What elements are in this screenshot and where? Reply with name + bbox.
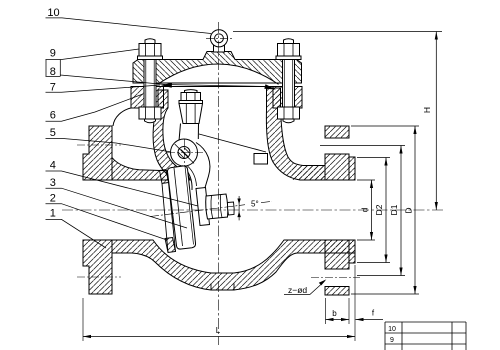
dimension D flange diameter xyxy=(351,126,419,294)
dimension L face to face length xyxy=(83,265,355,341)
body right pipe wall top xyxy=(290,166,325,180)
svg-text:D: D xyxy=(404,207,414,213)
stop lug xyxy=(254,154,268,165)
body left flange bottom xyxy=(83,240,112,294)
body flange bottoms xyxy=(131,107,302,109)
leader item 2 seat ring xyxy=(46,204,168,240)
svg-text:7: 7 xyxy=(50,82,56,94)
right flange raised face top xyxy=(349,157,355,180)
right flange raised face bottom xyxy=(349,240,355,263)
svg-text:10: 10 xyxy=(47,7,59,19)
body left pipe wall top xyxy=(112,158,174,181)
dimension b flange thickness xyxy=(326,298,350,324)
seat ring xyxy=(160,170,169,184)
dimension d bore diameter xyxy=(357,180,375,240)
hinge bracket bolt xyxy=(179,90,203,124)
leader item 3 disc xyxy=(46,188,188,228)
body left top flange xyxy=(131,87,164,109)
left flange hole centerlines xyxy=(77,145,121,277)
leader item 4 disc nut xyxy=(46,171,199,206)
pin centerline xyxy=(167,152,203,154)
svg-text:5: 5 xyxy=(50,127,56,139)
svg-text:d: d xyxy=(360,207,370,212)
centerline horizontal xyxy=(62,209,443,211)
leader item 9 hex nut xyxy=(46,49,140,60)
leader item 5 hinge pin xyxy=(46,138,171,151)
svg-text:9: 9 xyxy=(390,337,394,344)
body bottom sump wall xyxy=(112,240,355,290)
disc axis tilted centerline xyxy=(150,201,272,216)
hinge boss to pin xyxy=(179,124,199,142)
leader item 7 gasket, with arrow xyxy=(46,85,161,92)
svg-text:L: L xyxy=(216,326,221,335)
arm stop tail xyxy=(199,134,266,152)
leader item 8 bonnet, with box and arrow to joint xyxy=(46,60,269,87)
hinge pin xyxy=(171,139,198,166)
svg-text:5°: 5° xyxy=(251,200,259,209)
disc washer xyxy=(196,188,210,226)
body neck fillet left xyxy=(113,108,131,126)
label 5 degree disc angle, with arrows xyxy=(238,196,240,220)
centerline vertical xyxy=(218,22,220,345)
left bolt assembly xyxy=(138,39,163,123)
nut stub xyxy=(227,202,234,215)
eyebolt ring 10 xyxy=(214,45,225,53)
body left flange top xyxy=(83,126,112,180)
disc nut xyxy=(206,194,228,219)
body right neck wall xyxy=(266,88,325,180)
svg-text:8: 8 xyxy=(50,66,56,78)
leader item 10 eyebolt xyxy=(46,18,212,34)
right bolt assembly xyxy=(276,39,301,123)
svg-text:D2: D2 xyxy=(374,204,384,215)
svg-text:z−ød: z−ød xyxy=(288,285,307,295)
svg-text:3: 3 xyxy=(50,177,56,189)
svg-text:2: 2 xyxy=(50,192,56,204)
svg-text:b: b xyxy=(332,309,337,318)
svg-text:1: 1 xyxy=(50,208,56,220)
leader item 6 stud xyxy=(46,94,144,121)
right flange bottom hole centerline xyxy=(311,277,360,279)
disc xyxy=(167,166,195,249)
bonnet xyxy=(133,52,302,85)
dimension H overall height xyxy=(233,32,442,211)
hinge arm xyxy=(196,143,210,192)
svg-text:H: H xyxy=(422,107,432,113)
eyebolt crosshair xyxy=(206,37,233,39)
dimension D2 raised face diameter xyxy=(357,158,390,263)
svg-text:D1: D1 xyxy=(389,204,399,215)
body right flange blocks xyxy=(325,126,349,138)
parts table grid xyxy=(385,322,466,350)
svg-text:6: 6 xyxy=(50,110,56,122)
sump pad ticks xyxy=(211,284,234,291)
dimension f raised face height xyxy=(356,309,384,322)
body left neck wall xyxy=(153,90,190,180)
dimension D1 bolt circle diameter xyxy=(320,146,405,276)
leader item 1 body xyxy=(46,219,107,248)
gasket joint lines xyxy=(132,83,302,87)
body right top flange xyxy=(273,87,302,109)
svg-text:10: 10 xyxy=(388,326,396,333)
svg-text:4: 4 xyxy=(50,160,56,172)
svg-text:9: 9 xyxy=(50,48,56,60)
